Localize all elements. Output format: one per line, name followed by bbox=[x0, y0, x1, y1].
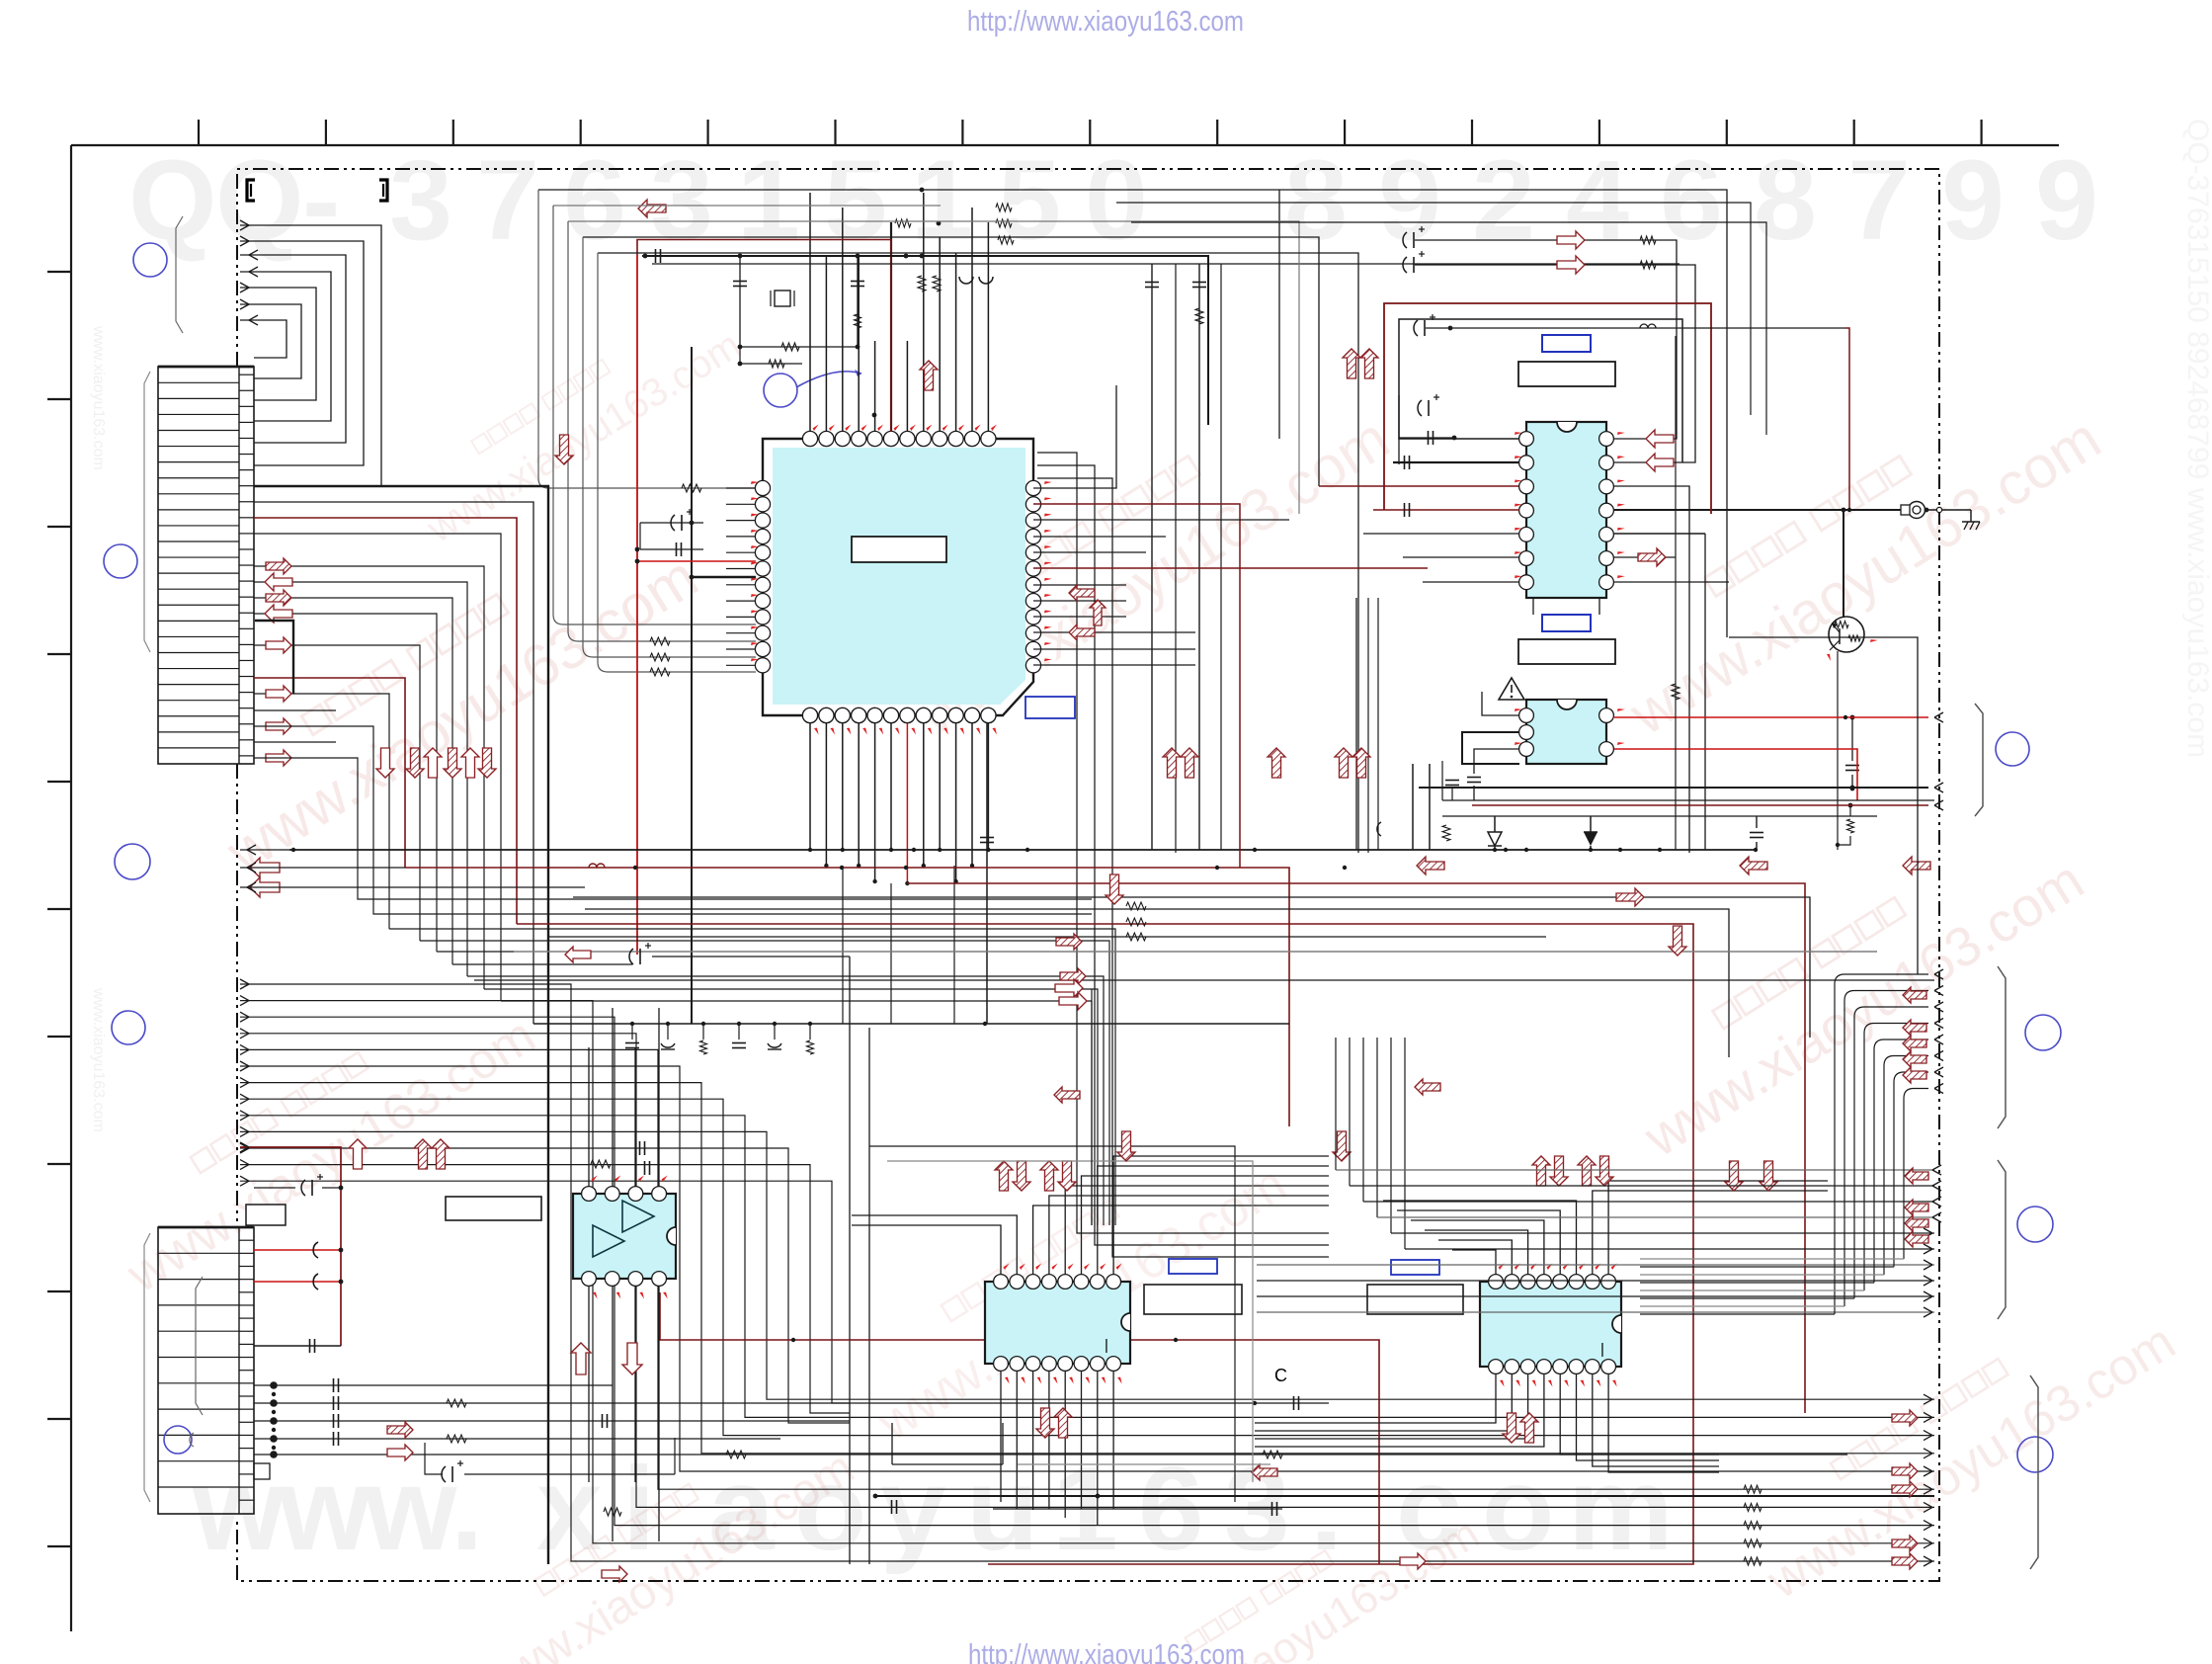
svg-text:y: y bbox=[880, 1443, 946, 1575]
svg-text:8: 8 bbox=[1754, 137, 1817, 264]
svg-text:3: 3 bbox=[650, 137, 713, 264]
svg-text:http://www.xiaoyu163.com: http://www.xiaoyu163.com bbox=[968, 1639, 1245, 1664]
svg-text:7: 7 bbox=[476, 137, 539, 264]
svg-text:.: . bbox=[1310, 1443, 1343, 1575]
svg-text:.: . bbox=[451, 1443, 483, 1575]
svg-text:w: w bbox=[278, 1443, 371, 1575]
svg-text:www.xiaoyu163.com: www.xiaoyu163.com bbox=[90, 987, 107, 1132]
svg-text:Q: Q bbox=[215, 137, 303, 264]
svg-text:QQ-376315150 892468799 www.xia: QQ-376315150 892468799 www.xiaoyu163.com bbox=[2181, 119, 2212, 758]
svg-text:7: 7 bbox=[1847, 137, 1911, 264]
svg-text:www.xiaoyu163.com: www.xiaoyu163.com bbox=[90, 325, 107, 470]
svg-text:6: 6 bbox=[563, 137, 626, 264]
svg-text:3: 3 bbox=[389, 137, 452, 264]
svg-text:-: - bbox=[302, 137, 340, 264]
svg-text:8: 8 bbox=[1284, 137, 1348, 264]
svg-text:C: C bbox=[1274, 1366, 1287, 1385]
svg-text:5: 5 bbox=[824, 137, 887, 264]
svg-text:|: | bbox=[1600, 1341, 1604, 1358]
svg-text:9: 9 bbox=[1378, 137, 1441, 264]
svg-text:m: m bbox=[1568, 1443, 1674, 1575]
svg-text:9: 9 bbox=[1941, 137, 2005, 264]
svg-text:1: 1 bbox=[737, 137, 800, 264]
svg-text:w: w bbox=[364, 1443, 457, 1575]
svg-text:0: 0 bbox=[1085, 137, 1148, 264]
svg-text:http://www.xiaoyu163.com: http://www.xiaoyu163.com bbox=[967, 6, 1244, 38]
svg-text:o: o bbox=[1482, 1443, 1554, 1575]
svg-text:9: 9 bbox=[2035, 137, 2098, 264]
svg-text:|: | bbox=[1105, 1337, 1108, 1354]
svg-text:1: 1 bbox=[911, 137, 974, 264]
svg-text:2: 2 bbox=[1472, 137, 1535, 264]
svg-text:6: 6 bbox=[1660, 137, 1723, 264]
